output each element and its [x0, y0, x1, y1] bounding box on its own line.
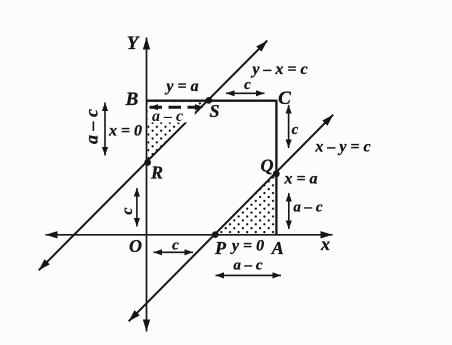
svg-text:R: R	[150, 163, 163, 183]
svg-text:c: c	[119, 207, 136, 214]
svg-text:S: S	[209, 101, 219, 121]
svg-text:c: c	[244, 77, 251, 93]
svg-text:P: P	[214, 238, 227, 258]
svg-text:a – c: a – c	[152, 108, 183, 125]
svg-text:A: A	[271, 238, 284, 258]
svg-text:x = 0: x = 0	[108, 123, 142, 140]
svg-text:Q: Q	[261, 156, 274, 176]
svg-text:y – x = c: y – x = c	[250, 61, 307, 78]
svg-text:Y: Y	[127, 33, 141, 54]
svg-text:c: c	[172, 238, 179, 254]
svg-text:O: O	[129, 236, 142, 256]
svg-text:y = a: y = a	[164, 78, 198, 95]
svg-text:a – c: a – c	[82, 109, 102, 144]
svg-text:a – c: a – c	[293, 200, 323, 216]
svg-text:C: C	[278, 88, 291, 109]
svg-text:B: B	[125, 89, 139, 110]
svg-text:x = a: x = a	[283, 171, 317, 188]
svg-text:x – y = c: x – y = c	[314, 139, 370, 156]
svg-text:x: x	[320, 234, 330, 254]
svg-text:a – c: a – c	[233, 258, 263, 274]
svg-text:y = 0: y = 0	[230, 238, 264, 255]
svg-text:c: c	[292, 122, 299, 138]
